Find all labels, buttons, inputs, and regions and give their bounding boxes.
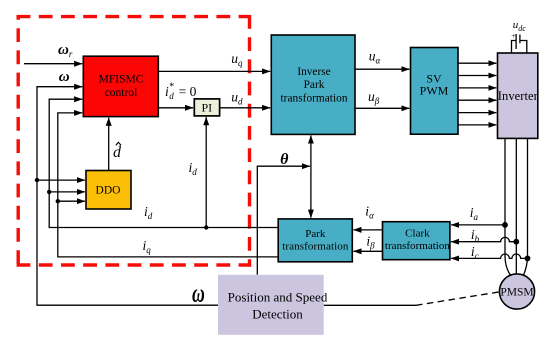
svg-text:Inverter: Inverter [498,89,539,103]
svg-text:i*d = 0: i*d = 0 [165,82,197,102]
svg-text:transformation: transformation [385,240,451,252]
svg-text:PI: PI [201,101,212,115]
svg-text:d: d [113,144,122,161]
svg-text:ω: ω [192,278,205,307]
svg-text:transformation: transformation [282,241,349,253]
svg-text:Park: Park [304,79,325,91]
svg-text:Position and Speed: Position and Speed [228,289,328,304]
svg-text:Clark: Clark [405,227,430,239]
svg-text:control: control [105,87,138,99]
svg-text:transformation: transformation [281,92,348,104]
svg-text:Inverse: Inverse [297,66,330,78]
svg-text:Detection: Detection [252,307,303,322]
svg-text:+: + [511,31,515,40]
svg-text:PWM: PWM [420,84,449,98]
svg-text:Park: Park [305,228,326,240]
svg-text:PMSM: PMSM [500,286,533,298]
svg-text:ω: ω [59,69,70,85]
svg-text:θ: θ [280,151,289,168]
svg-text:DDO: DDO [96,184,121,196]
svg-text:MFISMC: MFISMC [99,73,144,85]
